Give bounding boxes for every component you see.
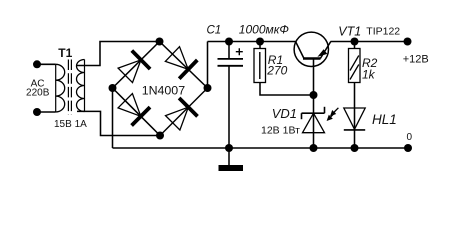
arrow 1 xyxy=(334,108,338,112)
AC terminal top xyxy=(33,60,41,68)
node base xyxy=(310,91,318,99)
wire plus rail xyxy=(208,41,297,43)
wire emitter rail xyxy=(331,41,408,43)
svg-text:0: 0 xyxy=(407,132,413,143)
svg-text:C1: C1 xyxy=(207,24,222,36)
svg-text:VD1: VD1 xyxy=(272,106,297,121)
plus sign xyxy=(236,48,243,55)
resistor R1 xyxy=(254,42,314,96)
node HL1 ground xyxy=(351,144,359,152)
edge top-right xyxy=(160,42,208,89)
wire secondary bottom to bridge xyxy=(77,111,160,135)
transformer T1 xyxy=(56,60,85,115)
diode D3 xyxy=(118,94,141,117)
edge top-left xyxy=(113,42,160,89)
arrow 2 xyxy=(331,113,335,117)
svg-text:220В: 220В xyxy=(26,87,50,98)
svg-text:270: 270 xyxy=(266,64,287,78)
diode D1 xyxy=(118,60,141,83)
LED HL1 xyxy=(327,108,366,130)
node R2 top xyxy=(351,38,359,46)
diode D4 xyxy=(166,107,189,130)
svg-text:12В 1Вт: 12В 1Вт xyxy=(261,125,300,137)
edge bottom-left xyxy=(113,88,161,136)
resistor R2 xyxy=(349,42,361,149)
node bridge right xyxy=(204,84,212,92)
svg-text:HL1: HL1 xyxy=(372,112,397,127)
capacitor C1 xyxy=(218,42,244,149)
svg-text:+12В: +12В xyxy=(403,53,429,65)
label AC 220V xyxy=(26,78,50,98)
svg-text:1k: 1k xyxy=(362,68,376,82)
node R1 top xyxy=(256,38,264,46)
svg-text:1000мкФ: 1000мкФ xyxy=(239,22,290,36)
transistor VT1 xyxy=(294,32,331,95)
wire primary top xyxy=(37,63,56,65)
node C1 bottom xyxy=(225,144,233,152)
node bridge bottom xyxy=(156,132,164,140)
wire ground rail xyxy=(113,147,409,149)
ground symbol xyxy=(219,148,244,171)
wire right node riser xyxy=(207,42,209,89)
node bridge top xyxy=(156,38,164,46)
diode D2 xyxy=(165,47,188,70)
terminal 0 xyxy=(404,144,412,152)
bridge rectifier 1N4007 xyxy=(113,42,208,136)
wire primary bottom xyxy=(37,111,56,113)
node C1 top xyxy=(225,38,233,46)
wire secondary top to bridge xyxy=(77,42,160,66)
svg-text:1N4007: 1N4007 xyxy=(142,83,186,97)
node bridge left xyxy=(109,84,117,92)
svg-text:T1: T1 xyxy=(58,46,72,60)
terminal +12V xyxy=(404,38,412,46)
wire left node riser to ground xyxy=(112,88,114,148)
svg-text:TIP122: TIP122 xyxy=(366,25,400,37)
edge bottom-right xyxy=(160,88,208,136)
emitter arrow xyxy=(317,49,327,57)
zener diode VD1 xyxy=(302,95,325,148)
svg-text:VT1: VT1 xyxy=(338,25,361,39)
svg-text:15В 1А: 15В 1А xyxy=(54,119,87,130)
node VD1 ground xyxy=(310,144,318,152)
AC terminal bottom xyxy=(33,108,41,116)
